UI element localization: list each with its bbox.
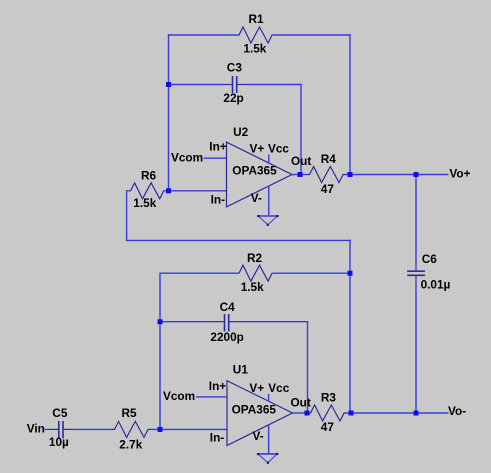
svg-text:R1: R1	[249, 12, 265, 26]
svg-text:V+: V+	[250, 141, 265, 155]
svg-text:C5: C5	[52, 406, 68, 420]
svg-text:C3: C3	[227, 61, 243, 75]
svg-text:10µ: 10µ	[49, 435, 69, 449]
svg-text:Vo-: Vo-	[448, 404, 466, 418]
svg-text:22p: 22p	[223, 91, 243, 105]
svg-text:2200p: 2200p	[210, 330, 243, 344]
svg-text:Vo+: Vo+	[449, 167, 470, 181]
svg-text:Out: Out	[291, 395, 311, 409]
svg-text:R6: R6	[141, 168, 157, 182]
svg-text:2.7k: 2.7k	[119, 437, 142, 451]
svg-text:Vcc: Vcc	[268, 381, 289, 395]
svg-text:OPA365: OPA365	[232, 403, 277, 417]
svg-text:In-: In-	[211, 193, 225, 207]
svg-text:Vcom: Vcom	[171, 151, 203, 165]
svg-text:Vin: Vin	[27, 421, 45, 435]
svg-text:In+: In+	[209, 139, 226, 153]
svg-text:Vcom: Vcom	[163, 389, 195, 403]
svg-text:R5: R5	[122, 406, 138, 420]
svg-text:Out: Out	[291, 154, 311, 168]
svg-text:R3: R3	[321, 390, 337, 404]
svg-text:47: 47	[321, 182, 335, 196]
svg-text:1.5k: 1.5k	[133, 196, 156, 210]
svg-text:C4: C4	[220, 300, 236, 314]
svg-text:C6: C6	[422, 252, 438, 266]
svg-text:1.5k: 1.5k	[241, 280, 264, 294]
svg-text:V+: V+	[249, 381, 264, 395]
svg-text:R2: R2	[247, 251, 263, 265]
svg-text:R4: R4	[321, 152, 337, 166]
svg-text:In-: In-	[210, 431, 224, 445]
svg-text:Vcc: Vcc	[268, 141, 289, 155]
svg-text:OPA365: OPA365	[232, 163, 277, 177]
svg-text:0.01µ: 0.01µ	[421, 277, 451, 291]
svg-text:V-: V-	[253, 429, 264, 443]
svg-text:47: 47	[321, 420, 335, 434]
svg-text:U2: U2	[233, 125, 249, 139]
svg-text:V-: V-	[251, 191, 262, 205]
svg-text:In+: In+	[209, 379, 226, 393]
svg-text:U1: U1	[233, 363, 249, 377]
svg-text:1.5k: 1.5k	[243, 42, 266, 56]
